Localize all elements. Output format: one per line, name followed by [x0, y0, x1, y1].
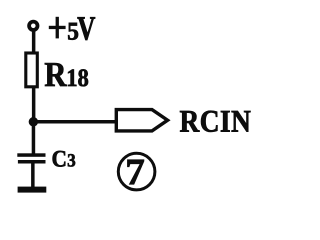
wire resistor to node	[32, 88, 36, 122]
capacitor C3 bottom plate	[18, 160, 46, 164]
node junction dot	[29, 117, 38, 126]
ground	[18, 187, 47, 193]
label RCIN	[180, 111, 251, 132]
resistor R18	[26, 53, 38, 87]
wire node to flag	[33, 120, 117, 124]
wire capacitor to ground	[31, 163, 34, 188]
label R18	[45, 63, 88, 86]
signal flag RCIN	[116, 110, 167, 131]
label +5V	[49, 17, 95, 40]
wire node to capacitor	[32, 122, 36, 154]
terminal +5V circle	[29, 22, 37, 30]
label C3	[53, 151, 75, 167]
wire terminal to resistor	[32, 30, 36, 53]
capacitor C3 top plate	[17, 153, 45, 157]
circled 7 callout	[118, 153, 155, 190]
